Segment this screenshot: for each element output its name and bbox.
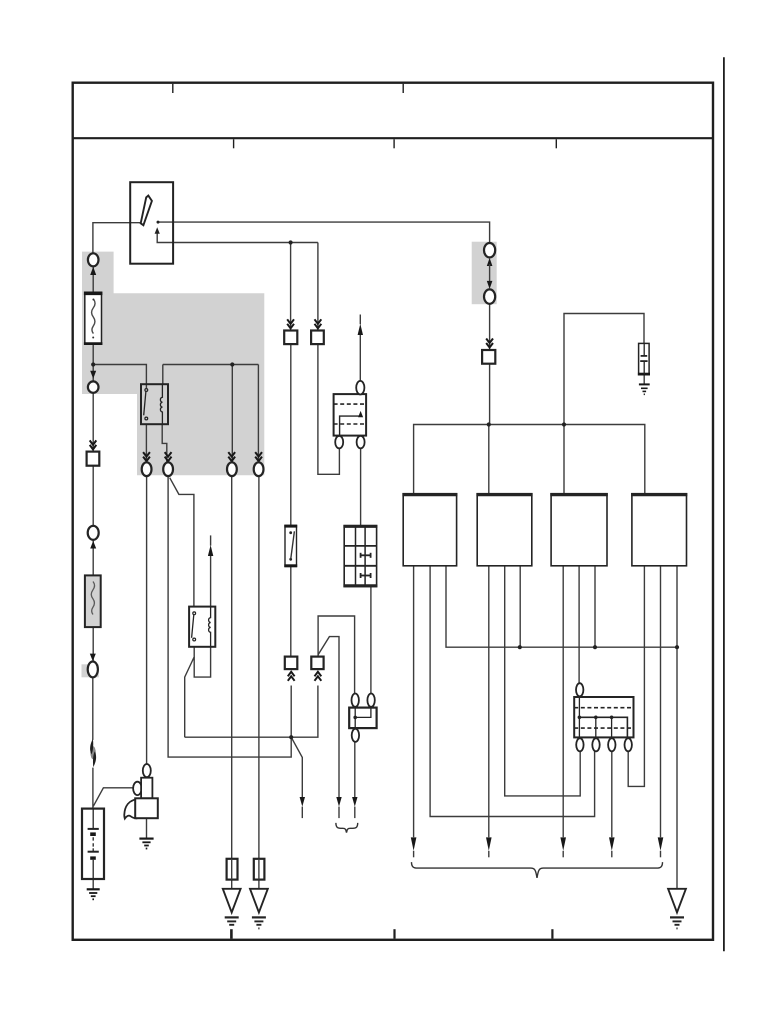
oval connector 3 — [227, 462, 237, 476]
wire: arrow stubs bottom row — [413, 851, 415, 858]
wire: drop to box G1 — [290, 243, 292, 331]
shaded relay-block region (gray) — [82, 252, 264, 476]
shield box (distributor signal) — [334, 394, 367, 436]
ground under capacitor — [639, 384, 650, 394]
noise filter (ignition) assembly — [124, 764, 158, 819]
resistor block R1 — [227, 859, 238, 880]
oval connector 2 — [163, 462, 173, 476]
chevrons into box G2 — [315, 319, 322, 328]
triangle ground 1 — [223, 889, 241, 925]
chevron arrows into box C — [90, 440, 97, 449]
junction dot ground bus — [289, 735, 293, 739]
ground under battery — [87, 889, 100, 899]
wire: resistor2 to triangle ground — [258, 880, 260, 889]
wire: bus drop to injector 2 — [488, 425, 490, 494]
wire: distributor pin3 down to arrow — [354, 742, 356, 798]
wire: relay2 coil up arrow shaft — [210, 552, 212, 607]
chevrons into oval 2 — [165, 452, 172, 461]
chevrons into oval 1 — [143, 452, 150, 461]
tick divider 1 — [233, 139, 235, 148]
junction dot lower contact wire — [289, 240, 293, 244]
oval connector 4 — [254, 462, 264, 476]
wire: shield box to grid box — [360, 448, 362, 525]
wire: box C to connector D — [92, 466, 94, 526]
wire: battery to ground — [92, 879, 94, 889]
shield box top oval — [356, 381, 364, 395]
wire: ground bus under relay2 — [185, 686, 318, 738]
fusible link ALT (gray) — [85, 575, 101, 627]
arrow up into connector A — [90, 267, 96, 275]
chevrons into box F — [486, 339, 493, 348]
triangle ground 2 — [250, 889, 268, 929]
wire: junction diagonal to center arrow — [318, 637, 339, 798]
box F — [482, 350, 495, 364]
wire: oval3 down to resistor 1 — [231, 476, 233, 859]
wire: fusible link ALT to connector E — [92, 627, 94, 661]
box C (connector block) — [87, 452, 100, 466]
oval connector 1 — [142, 462, 152, 476]
wire: injector1 pin3 to bus2 — [446, 566, 677, 647]
injector box 2 — [476, 494, 532, 566]
wire: injector3 pin2 to resistor block top — [578, 566, 580, 684]
tick bottom 3 — [551, 929, 553, 938]
wire: oval1 down to noise filter — [146, 476, 148, 764]
resistor block bottom ovals — [576, 738, 632, 751]
wire: switch contact 2 run — [157, 234, 318, 243]
wire: box G2 to shield box pin — [318, 344, 340, 474]
fuse IGN — [284, 525, 297, 566]
tick divider 2 — [393, 139, 395, 148]
box G1 — [284, 331, 297, 345]
wire: injector3 pin1 to arrow — [562, 566, 564, 837]
wire: drop to box G2 — [317, 243, 319, 331]
wire: connector A to fusible link AM1 — [92, 266, 94, 293]
box H1 (lower connector) — [285, 657, 298, 670]
wire: connector E to noise squiggle — [92, 677, 94, 740]
wire: main supply bus — [414, 425, 645, 494]
wire: injector4 pin3 to ground triangle — [676, 566, 678, 889]
wire: relay1 coil out jog to oval 2 — [162, 424, 167, 462]
wire: feed to relay1 contact — [93, 365, 146, 389]
chevrons up out of box H2 — [315, 672, 322, 681]
shaded patch at connector E (gray, left column) — [82, 664, 99, 677]
wire: branch to oval connector 4 — [257, 365, 259, 463]
grid box (ignition coil block) — [343, 526, 377, 587]
tick divider 3 — [555, 139, 557, 148]
arrow down into connector E — [90, 654, 96, 662]
wire: capacitor branch — [564, 314, 644, 425]
tick bottom 1 — [230, 929, 233, 938]
wire: resistor1 to triangle ground — [231, 880, 233, 889]
injector box 1 — [402, 494, 457, 566]
wire: connector pair to box F — [489, 304, 491, 350]
small curly brace — [336, 823, 358, 833]
wire: noise filter to ground — [146, 818, 148, 838]
ignition switch SW1 — [130, 182, 173, 264]
wire: fuse IGN to box H1 — [290, 567, 292, 657]
capacitor (noise condenser) — [638, 343, 650, 374]
wire: injector4 pin2 to arrow — [660, 566, 662, 837]
relay 1 (starter relay) — [141, 384, 168, 424]
wire: box G1 to fuse IGN — [290, 344, 292, 525]
wire: ignition switch to battery column — [93, 223, 141, 254]
box H2 (lower connector) — [311, 657, 323, 670]
wire: connector D to fusible link ALT — [92, 540, 94, 576]
junction dot fuse output — [91, 362, 95, 366]
wire: injector2 pin3 to bus2 — [519, 566, 521, 647]
injector box 3 — [550, 494, 608, 566]
wire: coil drop — [162, 365, 164, 385]
wire: resistor block pin3 to arrow — [611, 751, 613, 837]
wire: switch contact 1 to connector pair — [159, 222, 490, 243]
arrow up into connector D — [90, 541, 96, 549]
resistor block (solenoid resistor) — [574, 683, 633, 737]
wire: relay1 contact out to oval 1 — [145, 424, 147, 462]
distributor 3-pin component — [349, 694, 376, 742]
wire: injector2 pin1 to arrow — [488, 566, 490, 837]
chevrons up out of box H1 — [288, 672, 295, 681]
wire: squiggle to battery — [92, 768, 94, 809]
wire: oval2 diagonal to relay2 — [170, 478, 194, 607]
wire: fusible link to junction / connector B — [92, 344, 94, 381]
connector A (circle, battery feed top) — [88, 253, 99, 266]
wire: branch from H2 junction to distributor — [318, 616, 355, 694]
shield box bottom ovals — [335, 436, 343, 449]
fusible link AM1 (wavy, white) — [84, 293, 103, 345]
border frame — [73, 83, 713, 940]
noise squiggle (wire kink) — [90, 739, 96, 768]
resistor block R2 — [254, 859, 265, 880]
shaded connector strip (gray, right) — [472, 242, 497, 305]
arrows inside connector pair — [487, 258, 493, 266]
triangle ground 3 (right) — [668, 889, 686, 929]
wire: connector B down to box C — [92, 393, 94, 452]
bus2 junction dots — [518, 645, 522, 649]
wire: box F to main bus — [489, 364, 491, 425]
wire: box H1 lower lead — [290, 686, 292, 738]
battery — [82, 809, 104, 879]
big curly brace — [412, 862, 663, 878]
bottom arrow heads row — [411, 837, 417, 850]
tick top 2 — [402, 84, 404, 93]
wire: oval4 down to resistor 2 — [258, 476, 260, 859]
wire: relay1 coil top bus — [163, 364, 259, 366]
page edge line — [723, 57, 725, 951]
relay 2 (circuit opening relay) — [189, 607, 215, 647]
small arrows row (center) heads — [300, 797, 305, 807]
wire: relay2 coil return U — [194, 647, 210, 677]
bus junction dots — [487, 422, 491, 426]
wire: arrow stub 3 — [354, 807, 356, 819]
wire: shield box top arrow shaft — [359, 335, 361, 381]
box G2 — [311, 331, 324, 345]
wire: bus drop to injector 3 — [563, 425, 565, 494]
relay2 up arrow head — [208, 545, 213, 556]
connector B — [88, 381, 99, 392]
wire: injector2 pin2 to resistor block — [505, 566, 581, 796]
wire: injector1 pin1 to arrow — [413, 566, 415, 837]
shield box arrow head up — [358, 324, 363, 335]
wire: relay2 contact lead diagonal — [185, 647, 195, 737]
chevrons into oval 4 — [255, 452, 262, 461]
chevrons into box G1 — [287, 319, 294, 328]
ground under noise filter — [139, 839, 153, 849]
wire: injector3 pin3 to bus2 — [594, 566, 596, 647]
wire: center arrow stub 1 — [338, 807, 340, 819]
wire: shield arrow stub — [359, 315, 361, 325]
wire: injector4 pin1 to resistor block — [628, 566, 644, 787]
chevrons into oval 3 — [228, 452, 235, 461]
wire: relay2 arrow stub — [210, 535, 212, 545]
wire: grid box to distributor — [370, 587, 372, 694]
wire: noise filter to battery branch — [93, 788, 133, 807]
injector box 4 — [631, 494, 687, 566]
wire: arrow stub 2 — [301, 807, 303, 819]
wire: oval2 straight down and across — [168, 476, 291, 757]
connector E — [88, 662, 98, 678]
header divider — [73, 137, 713, 139]
connector pair top right — [484, 243, 495, 304]
tick top 1 — [172, 84, 174, 93]
wire: injector1 pin2 to resistor block — [430, 566, 594, 817]
wire: branch to oval connector 3 — [231, 365, 233, 463]
tick bottom 2 — [393, 929, 395, 938]
junction dot relay bus — [230, 362, 234, 366]
wire: junction drop arrow — [291, 737, 302, 797]
connector D — [88, 526, 99, 540]
wire: capacitor to ground — [643, 375, 645, 385]
arrow down to connector B — [90, 371, 96, 379]
